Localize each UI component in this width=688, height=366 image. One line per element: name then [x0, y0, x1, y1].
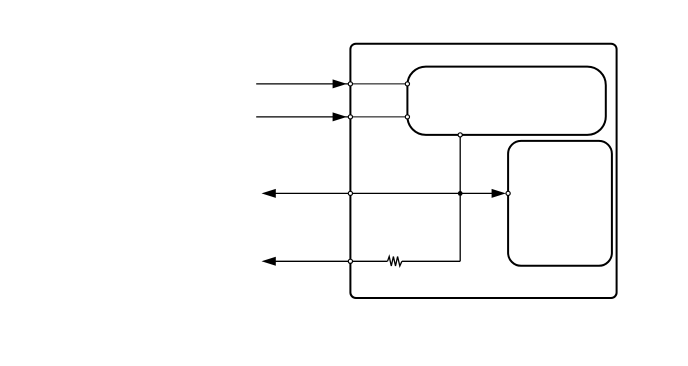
- outer block U1: [350, 44, 616, 298]
- arrowhead input 1: [333, 79, 347, 88]
- node pin circle U2 bottom: [458, 133, 462, 137]
- node pin circle U3 pin: [506, 191, 510, 195]
- resistor R1: [388, 257, 402, 267]
- wire resistor to vertical: [402, 260, 460, 262]
- inner block U3 (bottom right rounded): [508, 141, 612, 266]
- node pin circle edge C: [348, 191, 352, 195]
- junction dot: [458, 191, 463, 196]
- wire vertical from U2 bottom: [459, 135, 461, 261]
- arrowhead output D (left): [262, 257, 276, 266]
- inner block U2 (top rounded): [407, 67, 605, 135]
- wire node A (edge to U2 pin 1): [350, 83, 407, 85]
- wire output row C: [274, 192, 494, 194]
- node pin circle U2 pin2: [405, 115, 409, 119]
- node pin circle U2 pin1: [405, 82, 409, 86]
- arrowhead into U3: [492, 189, 506, 198]
- arrowhead output C (left): [262, 189, 276, 198]
- wire node B (edge to U2 pin 2): [350, 116, 407, 118]
- node pin circle edge A: [348, 82, 352, 86]
- arrowhead input 2: [333, 112, 347, 121]
- node pin circle edge B: [348, 115, 352, 119]
- wire output row D left: [274, 260, 387, 262]
- wire input 2: [256, 116, 348, 118]
- wire input 1: [256, 83, 348, 85]
- node pin circle edge D: [348, 259, 352, 263]
